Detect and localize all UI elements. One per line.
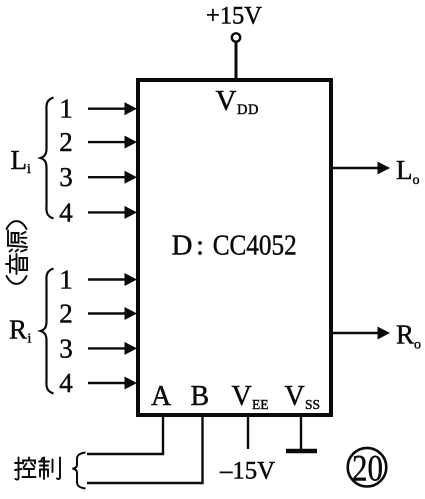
svg-text:o: o xyxy=(413,173,420,188)
svg-text:V: V xyxy=(216,85,237,117)
wire +15V to box top xyxy=(235,42,238,80)
label 控制 control xyxy=(15,458,60,480)
wire arrow Ri4 xyxy=(88,377,137,390)
label (音源) audio source, rotated xyxy=(6,221,27,284)
svg-text:1: 1 xyxy=(59,94,73,124)
wire arrow Ri1 xyxy=(88,273,137,286)
svg-text:V: V xyxy=(285,381,305,412)
glyph 源 xyxy=(8,231,27,252)
svg-text:SS: SS xyxy=(305,397,320,412)
svg-text:R: R xyxy=(396,320,414,350)
label Li xyxy=(11,145,32,177)
svg-text:4: 4 xyxy=(59,197,73,227)
svg-text:–15V: –15V xyxy=(219,458,275,485)
svg-text:4: 4 xyxy=(59,368,73,398)
ground symbol xyxy=(286,449,317,454)
svg-text:V: V xyxy=(232,381,252,412)
wire arrow Lo output xyxy=(333,162,390,175)
label Ri xyxy=(9,315,32,347)
svg-text:D: D xyxy=(172,230,193,262)
svg-text:3: 3 xyxy=(59,162,73,192)
wire arrow Li4 xyxy=(88,206,137,219)
glyph 制 xyxy=(39,458,60,480)
svg-text:L: L xyxy=(396,155,413,185)
svg-text:1: 1 xyxy=(59,265,73,295)
svg-text:B: B xyxy=(191,381,210,412)
wire arrow Ri2 xyxy=(88,307,137,320)
svg-text:i: i xyxy=(27,162,31,177)
IC D CC4052 box xyxy=(138,80,331,415)
pin label VEE xyxy=(232,381,269,412)
svg-text:2: 2 xyxy=(59,127,73,157)
svg-text:CC4052: CC4052 xyxy=(213,230,297,262)
label D: CC4052 xyxy=(172,230,297,262)
svg-text:+15V: +15V xyxy=(206,2,262,29)
brace control group xyxy=(73,453,86,489)
( paren xyxy=(7,276,27,284)
svg-text:L: L xyxy=(11,145,28,175)
pin label VDD xyxy=(216,85,259,118)
svg-text:i: i xyxy=(28,332,32,347)
terminal circle xyxy=(232,33,240,41)
wire pin VSS to ground xyxy=(300,417,302,451)
wire pin B to control xyxy=(87,417,203,483)
label Lo xyxy=(396,155,420,188)
pin label VSS xyxy=(285,381,321,412)
wire arrow Li1 xyxy=(88,102,137,115)
svg-text:EE: EE xyxy=(252,397,269,412)
brace Li group xyxy=(41,98,54,219)
svg-text:o: o xyxy=(414,338,421,353)
label Ro xyxy=(396,320,421,353)
figure number circle 20 xyxy=(348,448,387,490)
svg-text:3: 3 xyxy=(59,333,73,363)
wire pin A to control xyxy=(87,417,163,454)
svg-text:20: 20 xyxy=(352,449,383,490)
svg-text:2: 2 xyxy=(59,299,73,329)
glyph 音 xyxy=(6,254,27,274)
wire arrow Li3 xyxy=(88,171,137,184)
wire pin VEE to -15V xyxy=(247,417,249,449)
glyph 控 xyxy=(15,458,36,480)
wire arrow Ro output xyxy=(333,327,390,340)
wire arrow Li2 xyxy=(88,136,137,149)
svg-text:A: A xyxy=(151,381,172,412)
brace Ri group xyxy=(41,269,54,394)
svg-text:DD: DD xyxy=(237,102,259,118)
svg-text::: : xyxy=(196,230,204,262)
wire arrow Ri3 xyxy=(88,342,137,355)
svg-text:R: R xyxy=(9,315,27,345)
) paren xyxy=(7,221,27,229)
